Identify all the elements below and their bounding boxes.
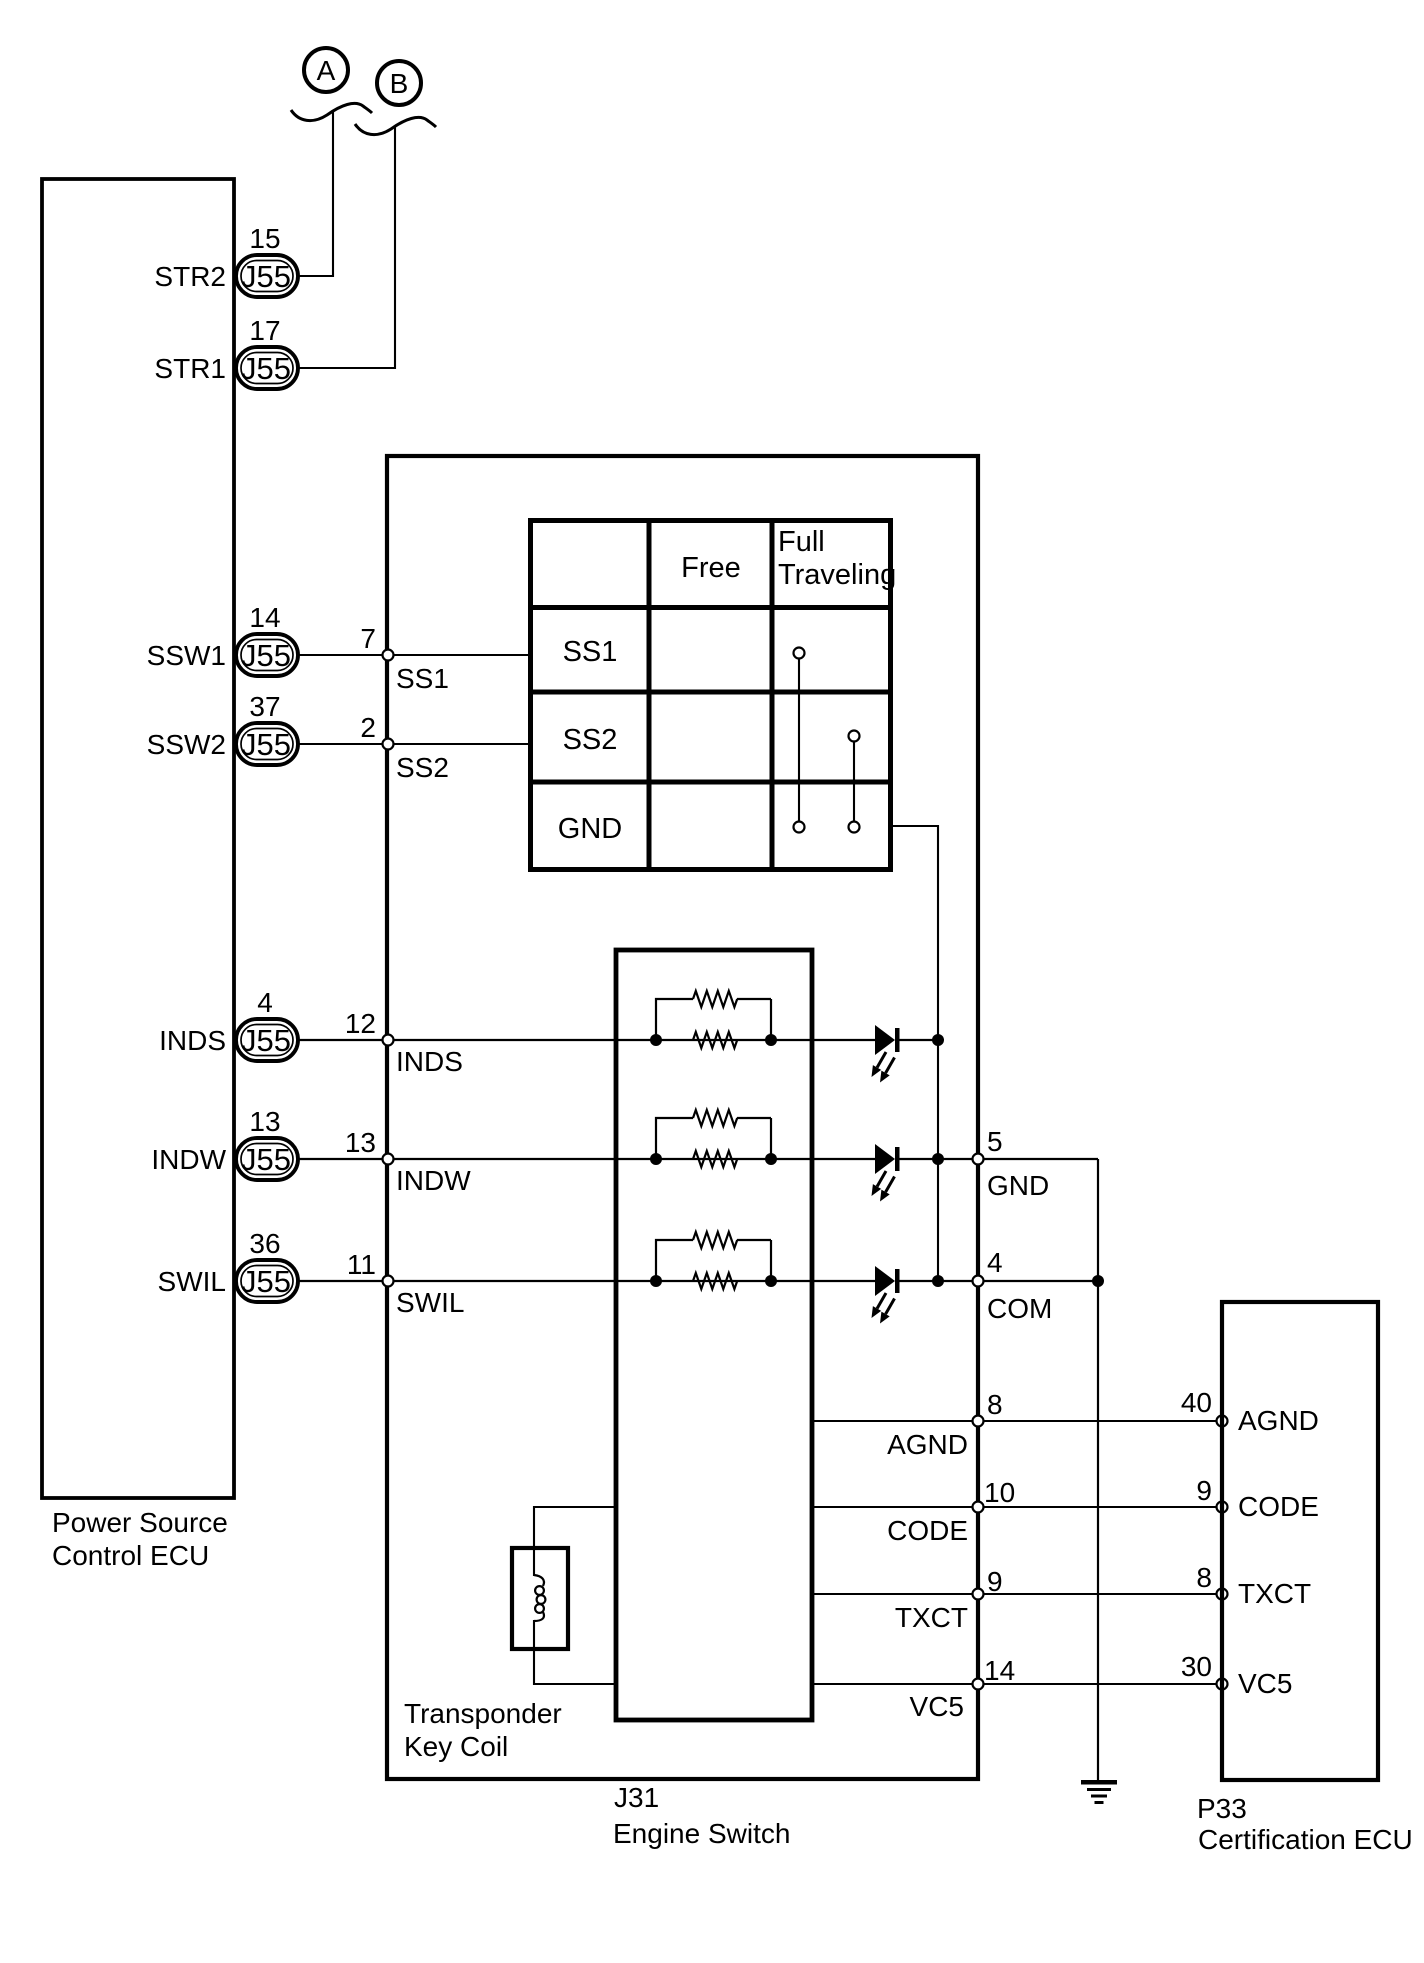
Power Source Control ECU box [42,179,234,1498]
svg-text:AGND: AGND [887,1429,968,1460]
svg-text:4: 4 [257,987,273,1018]
label Transponder Key Coil [404,1698,562,1762]
svg-text:INDW: INDW [396,1165,471,1196]
svg-text:14: 14 [249,602,280,633]
svg-text:INDS: INDS [159,1025,226,1056]
svg-text:30: 30 [1181,1651,1212,1682]
pin 8 (AGND J31) [973,1416,984,1427]
junction INDS/bus [932,1034,944,1046]
pin 5 (GND) [973,1154,984,1165]
svg-text:Free: Free [681,552,741,584]
pin 30 (VC5 P33) [1217,1679,1228,1690]
wire SSW1 to SS1 [298,654,530,656]
svg-text:Control ECU: Control ECU [52,1540,209,1571]
svg-text:J55: J55 [241,1142,291,1177]
svg-text:J55: J55 [241,351,291,386]
svg-text:SS1: SS1 [396,663,449,694]
svg-text:13: 13 [345,1127,376,1158]
svg-text:SS2: SS2 [396,752,449,783]
pin 7 (SS1) [383,650,394,661]
pin 8 (TXCT P33) [1217,1589,1228,1600]
switch contact SS2 full-traveling [849,731,860,742]
svg-text:J55: J55 [241,1023,291,1058]
table header Full Traveling [778,526,896,591]
svg-text:J55: J55 [241,259,291,294]
svg-text:J55: J55 [241,727,291,762]
connector J55 pin 36 (SWIL) [236,1260,298,1302]
svg-text:GND: GND [987,1170,1049,1201]
pin 9 (CODE P33) [1217,1502,1228,1513]
switch position table [528,518,893,870]
switch contact GND left [794,822,805,833]
svg-text:VC5: VC5 [1238,1668,1292,1699]
connector J55 pin 14 (SSW1) [236,634,298,676]
svg-text:AGND: AGND [1238,1405,1319,1436]
J31 Engine Switch box [387,456,978,1779]
svg-text:Key Coil: Key Coil [404,1731,508,1762]
wire STR2 to A [298,110,333,276]
pin 4 (COM) [973,1276,984,1287]
junction SWIL/bus [932,1275,944,1287]
svg-text:Traveling: Traveling [778,559,896,591]
connector J55 pin 17 (STR1) [236,347,298,389]
svg-text:8: 8 [1196,1562,1212,1593]
pin 40 (AGND P33) [1217,1416,1228,1427]
contact link SS1-GND [798,659,800,821]
svg-text:8: 8 [987,1389,1003,1420]
resistor pair INDW [656,1110,771,1167]
svg-text:10: 10 [984,1477,1015,1508]
transponder key coil wires [534,1507,616,1576]
svg-text:GND: GND [558,813,622,845]
svg-text:Engine Switch: Engine Switch [613,1818,790,1849]
transponder key coil box [512,1548,568,1649]
break wave under A [291,103,372,120]
svg-text:40: 40 [1181,1387,1212,1418]
junction INDW/bus [932,1153,944,1165]
svg-text:SS1: SS1 [563,636,618,668]
LED INDW [872,1144,900,1202]
svg-text:17: 17 [249,315,280,346]
connector circle B [377,61,421,105]
svg-text:CODE: CODE [1238,1491,1319,1522]
svg-text:36: 36 [249,1228,280,1259]
wire INDS row [298,1039,875,1041]
svg-text:9: 9 [1196,1475,1212,1506]
svg-text:Power Source: Power Source [52,1507,228,1538]
pin 12 (INDS) [383,1035,394,1046]
LED INDS [872,1025,900,1083]
svg-text:J31: J31 [614,1782,659,1813]
pin 2 (SS2) [383,739,394,750]
connector J55 pin 37 (SSW2) [236,723,298,765]
svg-text:TXCT: TXCT [895,1602,968,1633]
svg-text:COM: COM [987,1293,1052,1324]
label P33 Certification ECU [1197,1793,1413,1855]
svg-text:CODE: CODE [887,1515,968,1546]
svg-text:9: 9 [987,1566,1003,1597]
pin 11 (SWIL) [383,1276,394,1287]
svg-text:7: 7 [360,623,376,654]
wire SWIL row [298,1280,875,1282]
switch contact SS1 full-traveling [794,648,805,659]
svg-text:VC5: VC5 [910,1691,964,1722]
svg-text:5: 5 [987,1126,1003,1157]
wire STR1 to B [298,126,395,368]
svg-text:12: 12 [345,1008,376,1039]
coil inductor symbol [534,1575,545,1621]
pin 9 (TXCT J31) [973,1589,984,1600]
pin 14 (VC5 J31) [973,1679,984,1690]
label J31 Engine Switch [613,1782,790,1849]
svg-text:P33: P33 [1197,1793,1247,1824]
wire VC5 row [812,1683,1222,1685]
switch contact GND right [849,822,860,833]
inner key switch box [616,950,812,1720]
svg-text:15: 15 [249,223,280,254]
svg-text:STR1: STR1 [154,353,226,384]
contact link SS2-GND [853,742,855,821]
resistor pair SWIL [656,1232,771,1289]
wire AGND row [812,1420,1222,1422]
svg-text:11: 11 [347,1249,376,1280]
wire TXCT row [812,1593,1222,1595]
svg-text:J55: J55 [241,638,291,673]
svg-text:Certification ECU: Certification ECU [1198,1824,1413,1855]
pin 13 (INDW) [383,1154,394,1165]
svg-text:37: 37 [249,691,280,722]
pin 10 (CODE J31) [973,1502,984,1513]
svg-text:SS2: SS2 [563,724,618,756]
svg-text:A: A [317,55,336,86]
svg-text:SSW2: SSW2 [147,729,226,760]
connector circle A [304,48,348,92]
svg-text:14: 14 [984,1655,1015,1686]
connector J55 pin 13 (INDW) [236,1138,298,1180]
svg-text:13: 13 [249,1106,280,1137]
svg-text:SWIL: SWIL [158,1266,226,1297]
resistor pair INDS [656,991,771,1048]
wire INDW row [298,1158,875,1160]
wire table GND to bus [891,826,938,1281]
svg-text:SSW1: SSW1 [147,640,226,671]
svg-text:J55: J55 [241,1264,291,1299]
svg-text:SWIL: SWIL [396,1287,464,1318]
svg-text:INDS: INDS [396,1046,463,1077]
P33 Certification ECU box [1222,1302,1378,1780]
svg-text:STR2: STR2 [154,261,226,292]
ground bus vertical [1097,1159,1099,1782]
svg-text:Transponder: Transponder [404,1698,562,1729]
svg-text:2: 2 [360,712,376,743]
wire SSW2 to SS2 [298,743,530,745]
svg-text:INDW: INDW [151,1144,226,1175]
connector J55 pin 15 (STR2) [236,255,298,297]
LED SWIL [872,1266,900,1324]
wire CODE row [812,1506,1222,1508]
break wave under B [355,117,436,134]
earth ground symbol [1081,1780,1117,1804]
label Power Source Control ECU [52,1507,228,1571]
svg-text:B: B [390,68,409,99]
junction COM/ground bus [1092,1275,1104,1287]
svg-text:Full: Full [778,526,825,558]
svg-text:4: 4 [987,1247,1003,1278]
connector J55 pin 4 (INDS) [236,1019,298,1061]
svg-text:TXCT: TXCT [1238,1578,1311,1609]
